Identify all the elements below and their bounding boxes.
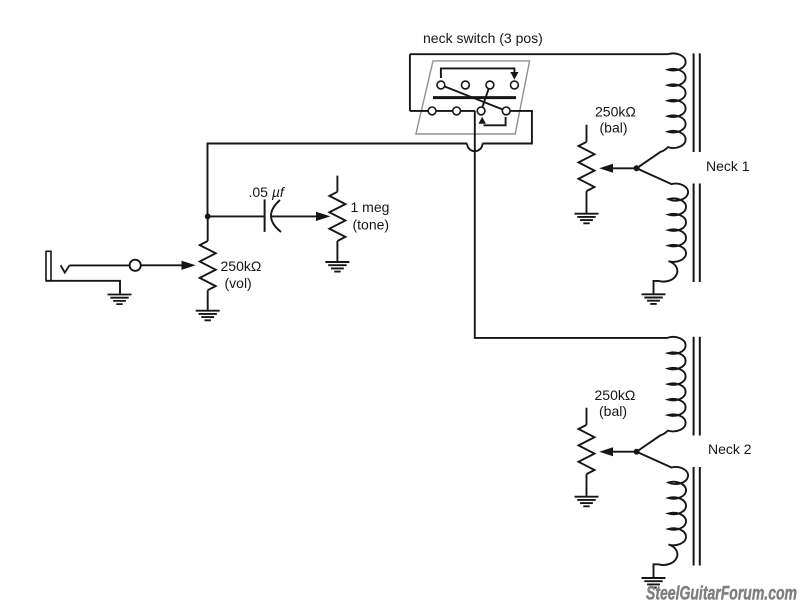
svg-text:(bal): (bal) (599, 403, 627, 419)
node: volume/capacitor junction (205, 214, 211, 220)
switch contact t1 (437, 81, 445, 89)
switch wiper diagonal t1-c4 (441, 85, 506, 111)
switch contact t3 (486, 81, 494, 89)
svg-text:1 meg: 1 meg (351, 199, 390, 215)
svg-text:250kΩ: 250kΩ (221, 258, 262, 274)
label: Neck 1 (706, 158, 750, 174)
ground: Neck 2 balance pot (575, 497, 599, 507)
core: Neck 1 upper (694, 53, 700, 152)
svg-text:(vol): (vol) (225, 275, 252, 291)
switch wiper diagonal t3-c3 (481, 85, 490, 111)
core: Neck 1 lower (694, 184, 700, 283)
switch contact c1 (428, 107, 436, 115)
node: Neck 1 center tap (634, 165, 640, 171)
node: Neck 2 center tap (634, 449, 640, 455)
ground: Neck 1 coil (642, 294, 666, 304)
wire: Neck 2 tap to balance pot wiper (arrow) (599, 447, 636, 456)
svg-text:neck switch (3 pos): neck switch (3 pos) (423, 30, 543, 46)
wire: capacitor to tone pot wiper (arrow) (272, 212, 331, 221)
svg-text:SteelGuitarForum.com: SteelGuitarForum.com (646, 584, 797, 605)
wire: Neck 1 tap to balance pot wiper (arrow) (599, 164, 636, 173)
pickup coil: Neck 2 upper half (637, 337, 686, 452)
core: Neck 2 lower (694, 467, 700, 566)
ground: Neck 1 balance pot (575, 214, 599, 224)
wire: switch box left side (409, 54, 411, 111)
label: 1 meg (tone) (351, 199, 390, 233)
ground: tone pot (325, 262, 349, 272)
ground: Neck 2 coil (642, 578, 666, 588)
input jack J1 (46, 251, 69, 280)
ground: jack sleeve (108, 295, 132, 305)
pickup coil: Neck 2 lower half (637, 452, 688, 578)
switch contact c4 (502, 107, 510, 115)
wire: junction to capacitor (208, 215, 264, 217)
label: Neck 2 (708, 441, 752, 457)
switch common bar (433, 96, 516, 99)
switch linking bracket (top, with arrow) (441, 68, 519, 79)
svg-text:250kΩ: 250kΩ (595, 387, 636, 403)
svg-text:.05 µf: .05 µf (249, 184, 286, 200)
wire: switch output to volume junction (right loop) (208, 111, 532, 216)
label: neck switch (3 pos) (423, 30, 543, 46)
wire: jack tip to volume pot wiper (arrow) (69, 261, 195, 270)
pickup coil: Neck 1 lower half (637, 168, 688, 293)
switch contact c3 (477, 107, 485, 115)
switch S1 body (3-position slide, gray outline) (416, 61, 530, 134)
label: 250kOhm (vol) (221, 258, 262, 291)
wire: switch bottom row bus (left) (410, 110, 475, 112)
switch contact t4 (511, 81, 519, 89)
potentiometer R1 250k (vol) (200, 216, 216, 310)
switch contact t2 (462, 81, 470, 89)
svg-text:250kΩ: 250kΩ (595, 104, 636, 120)
pickup coil: Neck 1 upper half (637, 53, 686, 168)
wire: jack sleeve to ground (46, 281, 120, 294)
wire: neck 2 feed (switch to lower coil) (475, 111, 668, 338)
capacitor C1 .05uf (265, 199, 281, 232)
node: jack tip terminal (open circle) (130, 260, 141, 271)
wire: switch to Neck 1 coil top (410, 53, 668, 55)
potentiometer R2 1 meg (tone) (329, 176, 345, 261)
switch contact c2 (453, 107, 461, 115)
label: .05 uf (249, 184, 286, 200)
core: Neck 2 upper (694, 337, 700, 436)
svg-text:Neck 2: Neck 2 (708, 441, 752, 457)
watermark: SteelGuitarForum.com (646, 584, 797, 605)
wire hop: output wire over neck 2 feed (467, 144, 482, 152)
potentiometer R3 250k (bal) Neck 1 (579, 125, 595, 213)
label: 250kOhm (bal) Neck 1 (595, 104, 636, 136)
ground: volume pot (196, 311, 220, 321)
label: 250kOhm (bal) Neck 2 (595, 387, 636, 419)
switch linking bracket (bottom, with arrow) (478, 117, 505, 125)
potentiometer R4 250k (bal) Neck 2 (579, 408, 595, 496)
svg-text:(tone): (tone) (353, 217, 390, 233)
svg-text:Neck 1: Neck 1 (706, 158, 750, 174)
svg-text:(bal): (bal) (600, 120, 628, 136)
